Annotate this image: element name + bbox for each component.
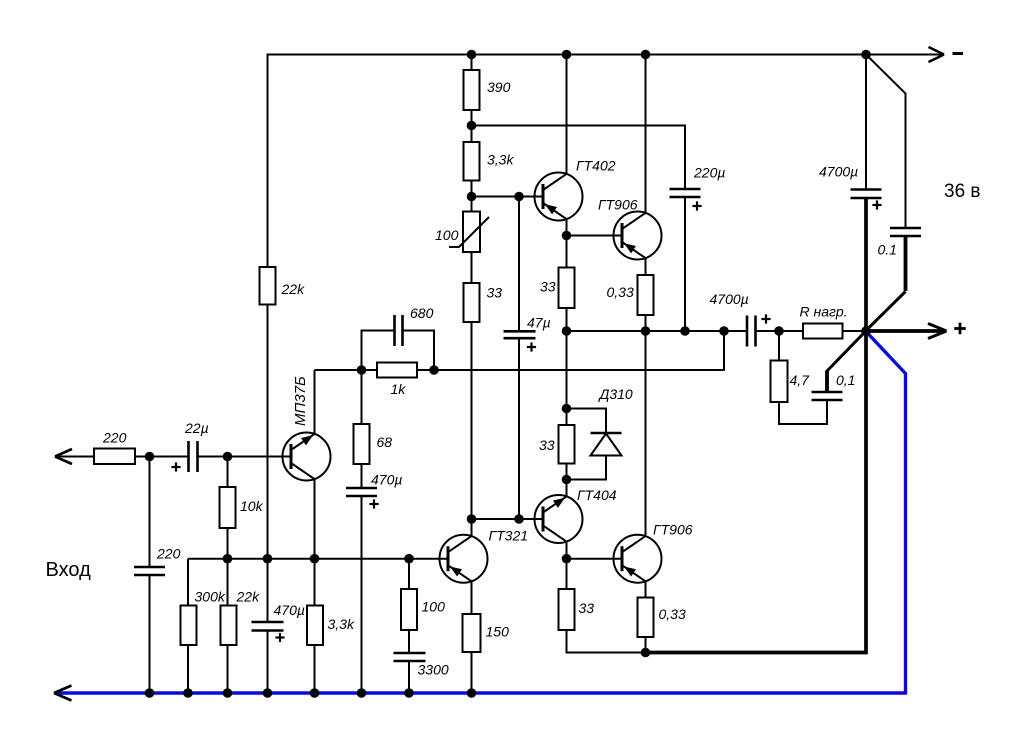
value label 390 <box>487 79 511 95</box>
svg-text:100: 100 <box>422 599 446 615</box>
wire top negative rail <box>268 54 942 56</box>
value label 470u emitter <box>371 472 402 488</box>
node ground / 3,3k <box>310 688 320 698</box>
polarity plus 4700u output <box>761 314 770 323</box>
arrow input terminal <box>55 449 72 464</box>
wire 33 diode column <box>566 331 568 425</box>
svg-text:0.1: 0.1 <box>878 242 897 258</box>
wire 22u to MP37B base <box>198 456 292 458</box>
svg-text:ГТ404: ГТ404 <box>577 487 617 503</box>
resistor 0,33 lower <box>638 598 654 638</box>
wire MP37B collector <box>314 370 316 434</box>
svg-text:1k: 1k <box>391 381 407 397</box>
value label 0,33 lower <box>659 606 686 622</box>
node input / 220 cap <box>145 452 155 462</box>
svg-text:220: 220 <box>156 546 181 562</box>
node GT402 base <box>467 192 477 202</box>
capacitor 680 <box>395 315 403 346</box>
wire left 22k column upper <box>267 54 269 268</box>
wire 680 branch left <box>362 331 395 371</box>
wire 3,3k bottom column upper <box>314 559 316 606</box>
wire 220 cap column lower <box>149 575 151 693</box>
wire main column 3,3k to 100 <box>471 181 473 212</box>
value label 22k bottom <box>236 589 261 605</box>
wire GT906 base <box>567 235 623 237</box>
wire diode lower loop <box>567 456 607 480</box>
wire 10k column upper <box>227 457 229 488</box>
node top rail / 390 <box>467 50 477 60</box>
label minus terminal <box>953 52 964 55</box>
polarity plus 47u <box>527 342 536 351</box>
capacitor 22u <box>189 441 198 472</box>
svg-text:4700µ: 4700µ <box>710 291 749 307</box>
wire 220u cap to plus rail <box>684 197 686 331</box>
value label 0,33 upper <box>607 284 634 300</box>
value label 33 lower <box>579 600 595 616</box>
node ground / 470u <box>263 688 273 698</box>
value label 68 <box>377 434 393 450</box>
polarity plus 220u <box>692 201 701 210</box>
label 36 v supply voltage <box>944 181 981 202</box>
wire diode upper loop <box>567 409 607 434</box>
wire plus rail thick <box>866 329 943 333</box>
resistor 33 lower <box>559 589 575 630</box>
node ground / 300k <box>183 688 193 698</box>
capacitor 220u <box>670 189 701 197</box>
svg-text:Д310: Д310 <box>598 386 633 402</box>
wire main column 390 to node <box>471 110 473 142</box>
value label 3300 <box>418 662 449 678</box>
node base wire / 22k left <box>263 554 273 564</box>
svg-text:470µ: 470µ <box>371 472 402 488</box>
capacitor 4700u supply <box>851 190 882 199</box>
wire 22k bottom column upper <box>227 559 229 606</box>
resistor 3,3k bottom <box>307 606 323 646</box>
wire 0,33 to plus rail <box>645 315 647 331</box>
value label 4700u output <box>710 291 749 307</box>
svg-text:22k: 22k <box>281 281 306 297</box>
svg-text:3300: 3300 <box>418 662 449 678</box>
svg-text:0,33: 0,33 <box>607 284 634 300</box>
wire mid feedback line right part <box>417 331 724 370</box>
resistor 1k <box>377 363 417 378</box>
node input / 10k <box>223 452 233 462</box>
wire 100 to 3300 <box>408 630 410 653</box>
svg-text:ГТ906: ГТ906 <box>598 197 638 213</box>
value label R load <box>800 304 848 320</box>
node ground / 22k <box>223 688 233 698</box>
wire MP37B emitter <box>314 479 316 559</box>
wire 4700u right column top <box>865 55 867 190</box>
wire main column 100 to 33 <box>471 252 473 283</box>
value label 150 <box>486 624 510 640</box>
svg-text:Вход: Вход <box>46 559 92 581</box>
svg-text:150: 150 <box>486 624 510 640</box>
wire 0,1 cap to X node <box>827 331 866 392</box>
wire 0.1 cap to X node <box>866 236 906 331</box>
wire 680 branch right <box>403 331 435 371</box>
node ground / 68 column <box>357 688 367 698</box>
svg-text:22k: 22k <box>236 589 261 605</box>
value label 33 diode <box>539 437 555 453</box>
value label 100 trimmer <box>435 227 459 243</box>
resistor 33 diode <box>559 425 575 464</box>
designator GT906 lower <box>653 522 693 538</box>
diode D310 <box>591 433 622 456</box>
svg-text:МП37Б: МП37Б <box>292 376 309 426</box>
designator MP37B <box>292 376 309 426</box>
capacitor 0.1 supply <box>890 228 921 236</box>
wire 3300 to bottom rail <box>408 661 410 693</box>
wire GT404 collector down <box>566 543 568 590</box>
wire plus rail left section <box>567 330 748 332</box>
wire 220u top branch <box>472 126 686 190</box>
node top rail / supply cap <box>861 50 871 60</box>
value label 220 input shunt <box>156 546 181 562</box>
value label 0.1 supply <box>878 242 897 258</box>
wire GT906 bottom collector column <box>645 331 647 535</box>
resistor 4,7 <box>771 361 788 403</box>
node GT321 collector / GT404 base <box>467 514 477 524</box>
wire 47u column lower <box>518 339 520 519</box>
transistor GT321 <box>440 535 488 583</box>
node diode top <box>562 404 572 414</box>
svg-text:ГТ402: ГТ402 <box>576 158 616 174</box>
node X output <box>861 326 871 336</box>
wire 220 cap column upper <box>149 457 151 568</box>
wire left 22k column lower <box>267 305 269 559</box>
wire 33 to plus rail <box>566 308 568 331</box>
wire 47u column upper <box>518 197 520 332</box>
capacitor 3300 <box>394 653 426 661</box>
value label 22k left <box>281 281 306 297</box>
designator GT906 upper <box>598 197 638 213</box>
value label 300k <box>195 589 226 605</box>
svg-text:100: 100 <box>435 227 459 243</box>
svg-text:470µ: 470µ <box>274 602 305 618</box>
arrow ground terminal <box>54 686 72 701</box>
value label 0,1 zobel <box>836 372 855 388</box>
wire GT402 collector column <box>566 55 568 175</box>
svg-text:33: 33 <box>539 437 555 453</box>
resistor 220 input <box>94 449 135 465</box>
node diode bottom <box>562 475 572 485</box>
resistor 390 <box>464 70 480 110</box>
value label 3,3k upper <box>487 152 514 168</box>
resistor 33 upper emitter <box>559 268 575 309</box>
designator GT404 <box>577 487 617 503</box>
transistor GT404 <box>535 495 583 543</box>
node top rail / GT402 collector <box>562 50 572 60</box>
wire 100 bottom column upper <box>408 559 410 589</box>
node top rail / GT906 collector <box>641 50 651 60</box>
wire 0,33 bottom to junction <box>645 637 647 653</box>
node plus rail / 220u <box>680 326 690 336</box>
wire GT404 emitter up <box>566 480 568 497</box>
node base wire / 100 <box>404 554 414 564</box>
wire diagonal rail to 0.1 cap <box>866 55 906 229</box>
resistor 22k left <box>260 267 276 305</box>
wire plus rail cap to Rload <box>756 330 804 332</box>
svg-text:4,7: 4,7 <box>790 372 811 388</box>
node 47u bottom <box>514 514 524 524</box>
capacitor 220 input shunt <box>134 567 165 575</box>
designator D310 <box>598 386 633 402</box>
wire 68 to 470u <box>361 464 363 488</box>
resistor 100 bottom <box>401 589 417 630</box>
resistor 10k <box>220 487 236 528</box>
svg-text:680: 680 <box>410 305 434 321</box>
resistor 150 <box>463 614 481 652</box>
wire 22k bottom column lower <box>227 645 229 693</box>
wire 470u to bottom rail <box>361 496 363 693</box>
node base wire / 10k <box>223 554 233 564</box>
svg-text:390: 390 <box>487 79 511 95</box>
wire 3,3k bottom column lower <box>314 645 316 693</box>
wire 33 diode to node <box>566 464 568 480</box>
polarity plus 470u bottom <box>275 633 284 642</box>
wire 300k column lower <box>187 645 189 693</box>
value label 680 <box>410 305 434 321</box>
value label 4700u supply <box>819 164 858 180</box>
svg-text:ГТ906: ГТ906 <box>653 522 693 538</box>
polarity plus 4700u supply <box>872 200 881 209</box>
svg-text:33: 33 <box>540 279 556 295</box>
svg-text:3,3k: 3,3k <box>328 616 355 632</box>
capacitor 0,1 zobel <box>812 392 843 400</box>
node plus rail / 0,33 <box>641 326 651 336</box>
value label 47u <box>527 315 551 331</box>
svg-text:10k: 10k <box>240 498 264 514</box>
node plus rail / zobel <box>774 326 784 336</box>
label Vhod input <box>46 559 92 581</box>
wire 68 column top <box>361 370 363 424</box>
node GT404 collector / GT906 base <box>562 554 572 564</box>
capacitor 470u emitter <box>346 488 377 496</box>
wire input 220 to 22u <box>135 456 189 458</box>
wire plus rail Rload to X node <box>843 330 867 332</box>
node ground / 150 <box>467 688 477 698</box>
value label 33 driver <box>487 285 503 301</box>
svg-text:220µ: 220µ <box>693 165 725 181</box>
node GT402 emitter / GT906 base <box>562 231 572 241</box>
value label 33 upper emitter <box>540 279 556 295</box>
capacitor 470u bottom <box>252 622 284 631</box>
wire 150 to bottom rail <box>471 652 473 693</box>
node plus rail / feedback <box>719 326 729 336</box>
svg-text:33: 33 <box>579 600 595 616</box>
polarity plus 470u emitter <box>369 499 378 508</box>
resistor 22k bottom <box>221 606 237 646</box>
wire 4,7 top <box>778 331 780 361</box>
svg-text:ГТ321: ГТ321 <box>489 528 529 544</box>
wire thick output bottom <box>646 198 867 653</box>
svg-text:33: 33 <box>487 285 503 301</box>
svg-text:47µ: 47µ <box>527 315 551 331</box>
designator GT402 <box>576 158 616 174</box>
arrow plus rail terminal <box>928 324 947 339</box>
wire main column rail to 390 <box>471 55 473 71</box>
arrow top-right rail terminal <box>929 47 945 62</box>
wire 33 bottom to junction <box>567 630 646 653</box>
resistor 0,33 upper <box>638 275 654 315</box>
value label 4,7 <box>790 372 811 388</box>
wire zobel loop <box>779 400 827 424</box>
wire GT906 bottom base <box>567 558 623 560</box>
resistor 3,3k upper <box>464 142 480 181</box>
wire left column 470u cap to bottom rail <box>267 631 269 694</box>
resistor R load <box>803 324 843 339</box>
svg-text:300k: 300k <box>195 589 226 605</box>
wire GT321 base line <box>188 558 448 560</box>
value label 10k <box>240 498 264 514</box>
node feedback / 680 left <box>357 365 367 375</box>
value label 1k <box>391 381 407 397</box>
wire GT402 emitter to 33 <box>566 219 568 268</box>
wire 10k to base wire <box>227 528 229 559</box>
wire input left segment <box>58 456 94 458</box>
node 390 bottom / 220u branch <box>467 121 477 131</box>
svg-text:3,3k: 3,3k <box>487 152 514 168</box>
value label 470u bottom <box>274 602 305 618</box>
wire mid feedback line <box>315 369 378 371</box>
transistor GT402 <box>535 173 583 221</box>
value label 220 input <box>102 430 127 446</box>
wire 300k column upper <box>187 559 189 606</box>
svg-text:0,33: 0,33 <box>659 606 686 622</box>
svg-text:68: 68 <box>377 434 393 450</box>
transistor GT906 lower <box>614 535 662 583</box>
value label 22u <box>184 420 209 436</box>
node base wire / MP37B emitter <box>310 554 320 564</box>
resistor 33 driver <box>464 283 480 322</box>
wire blue ground return <box>58 332 906 694</box>
svg-text:22µ: 22µ <box>184 420 209 436</box>
svg-text:R нагр.: R нагр. <box>800 304 848 320</box>
label plus terminal <box>954 323 966 335</box>
wire GT404 base line <box>472 518 543 520</box>
wire GT906 bottom emitter <box>645 582 647 598</box>
wire GT402 base <box>472 196 544 198</box>
node output junction bottom <box>641 648 651 658</box>
capacitor 47u <box>504 331 536 338</box>
wire GT906 collector column <box>645 55 647 214</box>
transistor GT906 upper <box>614 212 662 260</box>
svg-text:4700µ: 4700µ <box>819 164 858 180</box>
resistor 68 <box>354 424 370 464</box>
node ground / 220 cap <box>145 688 155 698</box>
node 47u top <box>514 192 524 202</box>
transistor MP37B <box>283 433 331 481</box>
svg-text:0,1: 0,1 <box>836 372 855 388</box>
wire left column to 470u cap <box>267 559 269 622</box>
node feedback / 680 right <box>429 365 439 375</box>
capacitor 4700u output <box>747 316 756 347</box>
value label 100 bottom <box>422 599 446 615</box>
wire GT906 emitter to 0,33 <box>645 258 647 275</box>
value label 3,3k bottom <box>328 616 355 632</box>
node plus rail / 33 <box>562 326 572 336</box>
designator GT321 <box>489 528 529 544</box>
polarity plus 22u <box>171 462 180 471</box>
trimmer resistor 100 <box>449 212 489 253</box>
resistor 300k <box>181 606 197 646</box>
svg-text:36 в: 36 в <box>944 181 981 202</box>
svg-text:220: 220 <box>102 430 127 446</box>
node ground / 3300 <box>404 688 414 698</box>
wire main column 33 down to GT404 base node <box>471 322 473 519</box>
value label 220u <box>693 165 725 181</box>
wire GT321 collector <box>471 519 473 536</box>
wire GT321 emitter to 150 <box>471 581 473 614</box>
